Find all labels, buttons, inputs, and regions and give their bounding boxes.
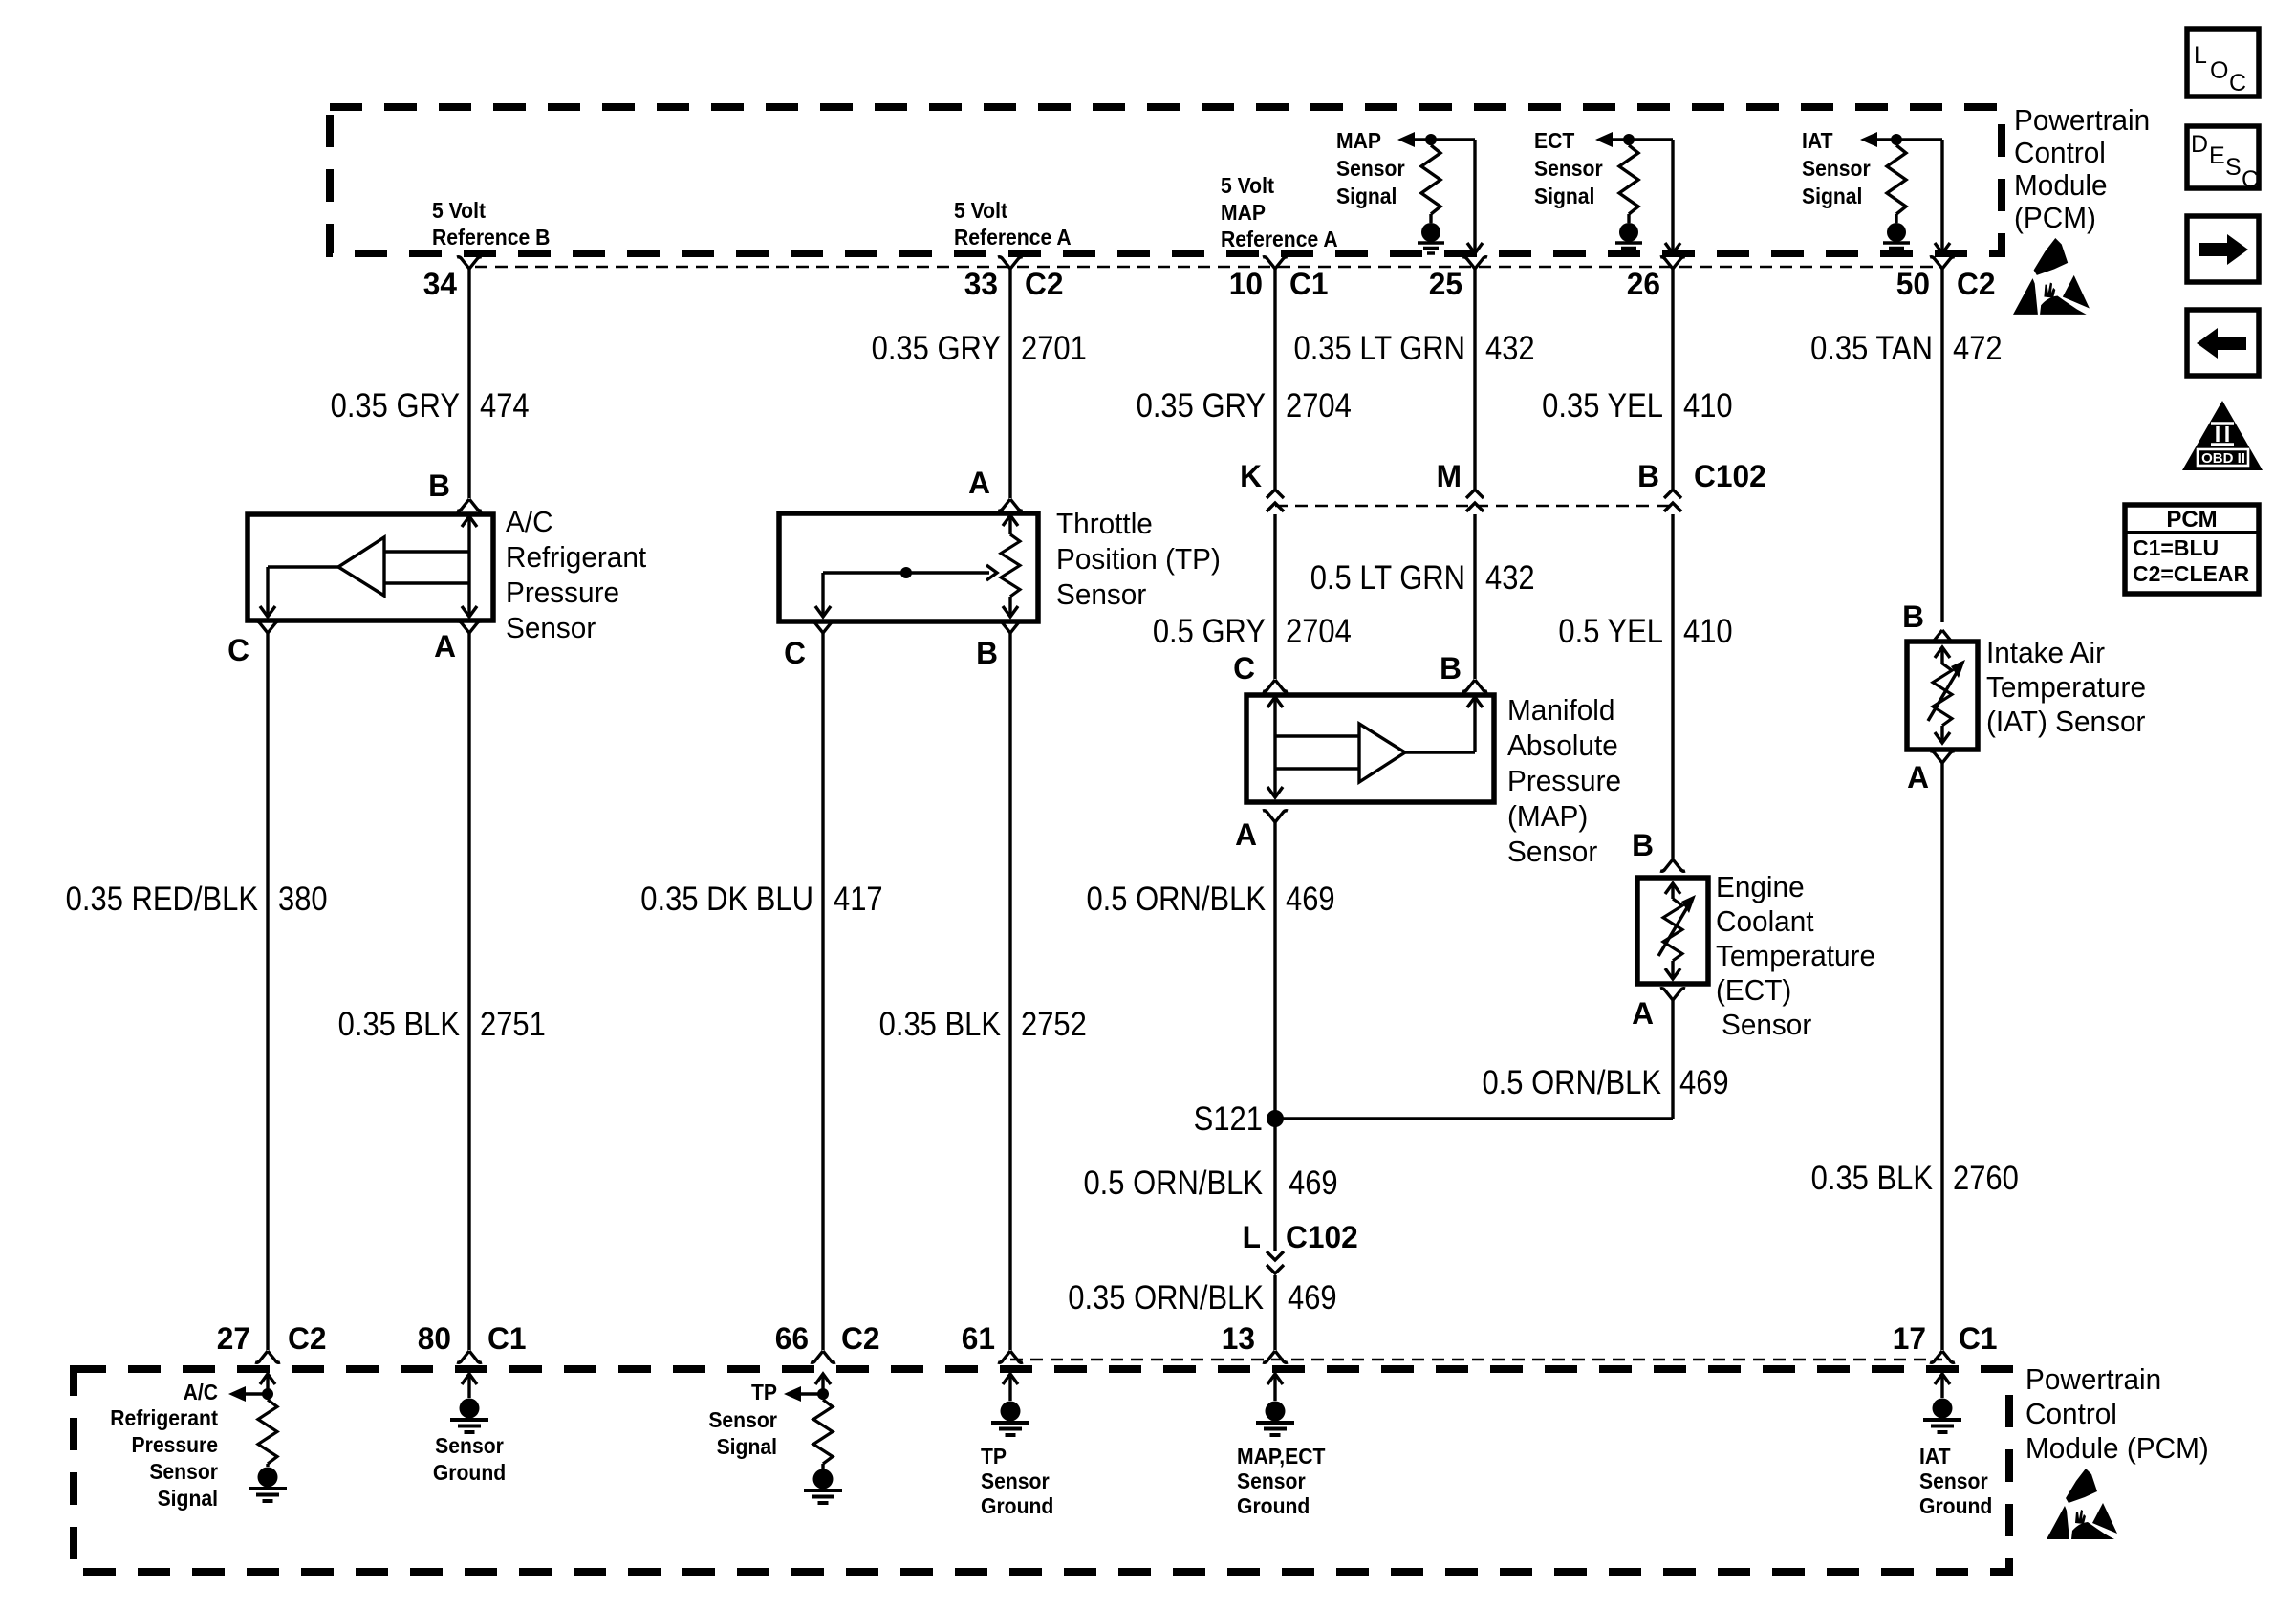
label Sensor Ground (pin 80) — [435, 1433, 504, 1458]
arrowhead up inside ECT top — [1665, 883, 1680, 894]
svg-text:C2: C2 — [1957, 267, 1995, 301]
svg-text:B: B — [976, 636, 998, 670]
svg-text:Pressure: Pressure — [132, 1432, 218, 1457]
ground (PCM internal, pin 80) — [450, 1399, 488, 1433]
wire C102 L to pin 13 — [1273, 1275, 1276, 1350]
label A/C Refrigerant Pressure Sensor — [506, 505, 553, 538]
connector pin 61 — [998, 1351, 1023, 1362]
label 0.35 RED/BLK 380 — [66, 881, 258, 918]
wire 10 to C102 K — [1273, 269, 1276, 489]
right arrow icon box — [2187, 216, 2259, 282]
label 0.35 GRY 474 — [331, 387, 460, 424]
svg-text:33: 33 — [964, 267, 998, 301]
svg-text:Temperature: Temperature — [1716, 939, 1875, 972]
ground (PCM internal, pin 13) — [1256, 1402, 1294, 1436]
svg-text:0.35 YEL: 0.35 YEL — [1542, 387, 1663, 424]
svg-text:80: 80 — [418, 1321, 451, 1356]
wire S121 to C102 L — [1273, 1119, 1276, 1251]
svg-text:A: A — [1907, 760, 1929, 794]
connector pin 80 C1 — [457, 1351, 482, 1362]
svg-text:TP: TP — [751, 1380, 777, 1404]
LOC icon box — [2187, 29, 2259, 97]
wire TP wiper down to C — [821, 573, 824, 615]
top connector boundary thin dashed line — [475, 266, 1942, 269]
svg-text:(IAT) Sensor: (IAT) Sensor — [1986, 705, 2145, 738]
connector pin 66 C2 — [811, 1351, 835, 1362]
svg-text:D: D — [2191, 131, 2208, 158]
svg-text:34: 34 — [423, 267, 458, 301]
label 0.35 BLK 2760 — [1811, 1160, 1933, 1197]
label Manifold Absolute Pressure (MAP) Sensor — [1507, 693, 1614, 727]
svg-text:Module (PCM): Module (PCM) — [2025, 1431, 2209, 1465]
arrowhead down at pin 50 — [1935, 243, 1950, 253]
svg-text:0.5 ORN/BLK: 0.5 ORN/BLK — [1482, 1064, 1661, 1101]
label A/C Refrigerant Pressure Sensor Signal — [184, 1380, 218, 1404]
svg-text:13: 13 — [1222, 1321, 1255, 1356]
connector MAP pin B — [1462, 680, 1487, 691]
svg-text:Position (TP): Position (TP) — [1056, 542, 1221, 576]
svg-text:Sensor: Sensor — [981, 1469, 1050, 1493]
svg-text:A: A — [968, 466, 990, 500]
svg-text:C2: C2 — [841, 1321, 879, 1356]
svg-text:Signal: Signal — [158, 1486, 218, 1511]
svg-text:B: B — [1440, 651, 1462, 685]
svg-text:Sensor: Sensor — [1237, 1469, 1306, 1493]
svg-text:TP: TP — [981, 1444, 1007, 1469]
svg-text:Reference A: Reference A — [1221, 227, 1338, 251]
node junction pin 27 — [262, 1388, 273, 1400]
svg-text:A: A — [1235, 817, 1257, 852]
svg-text:0.35 LT GRN: 0.35 LT GRN — [1293, 330, 1465, 367]
ESD sensitivity symbol (bottom) — [2047, 1469, 2117, 1539]
svg-text:C: C — [784, 636, 806, 670]
arrowhead up exiting MAP B — [1467, 697, 1483, 707]
OBD II triangle icon — [2182, 401, 2263, 470]
svg-text:Signal: Signal — [1534, 184, 1594, 208]
svg-text:Sensor: Sensor — [1507, 835, 1597, 868]
svg-text:469: 469 — [1289, 1164, 1338, 1202]
wire MAP internal branch lower — [1275, 767, 1359, 770]
svg-text:469: 469 — [1679, 1064, 1729, 1101]
svg-text:Control: Control — [2025, 1397, 2117, 1430]
svg-text:Ground: Ground — [1919, 1493, 1992, 1518]
wire pin 61 stub — [1008, 1374, 1011, 1401]
svg-text:S: S — [2225, 154, 2242, 181]
svg-text:17: 17 — [1893, 1321, 1926, 1356]
svg-text:Control: Control — [2014, 136, 2106, 169]
svg-text:0.5 ORN/BLK: 0.5 ORN/BLK — [1083, 1164, 1263, 1202]
resistor internal PCM (IAT pull-up) — [1895, 140, 1897, 145]
svg-text:C102: C102 — [1694, 459, 1766, 493]
arrowhead down exiting MAP A — [1267, 787, 1283, 797]
variable arrow ECT — [1658, 895, 1696, 956]
label 0.5 GRY 2704 — [1153, 613, 1266, 650]
svg-text:2704: 2704 — [1286, 387, 1352, 424]
connector pin 50 C2 — [1930, 257, 1955, 269]
label 0.5 LT GRN 432 — [1310, 559, 1465, 597]
svg-text:Sensor: Sensor — [435, 1433, 504, 1458]
op-amp triangle A/C (points left) — [338, 537, 384, 596]
svg-text:Reference A: Reference A — [954, 225, 1072, 250]
svg-text:66: 66 — [775, 1321, 809, 1356]
wire pin 66 stub — [821, 1374, 824, 1394]
wire M to MAP B — [1473, 514, 1476, 679]
arrowhead up entering A/C B — [462, 516, 477, 527]
TP signal arrow (filled, pointing left) — [784, 1386, 801, 1402]
svg-text:Signal: Signal — [1802, 184, 1862, 208]
label ECT Sensor Signal — [1534, 128, 1575, 153]
arrowhead down at pin 25 — [1467, 243, 1483, 253]
svg-text:(MAP): (MAP) — [1507, 799, 1588, 833]
wire A/C internal branch upper — [384, 550, 469, 553]
svg-text:5 Volt: 5 Volt — [432, 198, 487, 223]
node junction IAT signal — [1891, 134, 1902, 145]
wire A/C A to pin 80 — [467, 633, 470, 1350]
ground (PCM internal, pin 61) — [991, 1402, 1029, 1436]
wire MAP internal vertical — [1273, 697, 1276, 797]
wire pin 80 stub — [467, 1374, 470, 1398]
left arrow icon box — [2187, 310, 2259, 376]
connector pin 25 — [1462, 257, 1487, 269]
svg-text:(PCM): (PCM) — [2014, 201, 2096, 234]
svg-text:Signal: Signal — [717, 1434, 777, 1459]
svg-text:432: 432 — [1485, 330, 1535, 367]
connector MAP pin C — [1263, 680, 1288, 691]
svg-text:A: A — [434, 629, 456, 664]
svg-text:0.35 BLK: 0.35 BLK — [1811, 1160, 1933, 1197]
svg-text:0.35 BLK: 0.35 BLK — [879, 1006, 1001, 1043]
svg-text:Sensor: Sensor — [1336, 156, 1405, 181]
svg-text:0.35 ORN/BLK: 0.35 ORN/BLK — [1068, 1279, 1264, 1316]
svg-text:OBD II: OBD II — [2201, 450, 2245, 467]
svg-text:L: L — [2194, 42, 2207, 69]
svg-text:MAP: MAP — [1336, 128, 1381, 153]
svg-text:Pressure: Pressure — [1507, 764, 1621, 797]
label 0.35 ORN/BLK 469 — [1068, 1279, 1264, 1316]
svg-text:C2=CLEAR: C2=CLEAR — [2133, 561, 2249, 586]
svg-text:Ground: Ground — [981, 1493, 1053, 1518]
svg-text:0.35 TAN: 0.35 TAN — [1810, 330, 1933, 367]
svg-text:0.35 RED/BLK: 0.35 RED/BLK — [66, 881, 258, 918]
op-amp triangle MAP (points right) — [1359, 724, 1405, 782]
ground (PCM internal, pin 66) — [804, 1469, 842, 1504]
label 5 Volt Reference A — [954, 198, 1008, 223]
wire A/C internal branch lower — [384, 581, 469, 584]
svg-text:Reference B: Reference B — [432, 225, 550, 250]
svg-text:Manifold: Manifold — [1507, 693, 1614, 727]
arrowhead up inside IAT top — [1935, 647, 1950, 658]
svg-text:0.5 LT GRN: 0.5 LT GRN — [1310, 559, 1465, 597]
svg-text:Powertrain: Powertrain — [2025, 1362, 2161, 1396]
arrowhead up pin 80 stub — [462, 1374, 477, 1384]
ground (PCM internal, pin 17) — [1923, 1399, 1961, 1433]
svg-text:B: B — [1632, 828, 1654, 862]
svg-text:PCM: PCM — [2166, 507, 2217, 533]
label Powertrain Control Module PCM (bottom right) — [2025, 1362, 2161, 1396]
svg-text:MAP,ECT: MAP,ECT — [1237, 1444, 1326, 1469]
svg-text:Refrigerant: Refrigerant — [110, 1405, 218, 1430]
svg-text:Intake Air: Intake Air — [1986, 636, 2105, 669]
svg-text:C1=BLU: C1=BLU — [2133, 535, 2219, 560]
arrowhead up pin 27 stub — [260, 1374, 275, 1384]
label MAP Sensor Signal — [1336, 128, 1381, 153]
connector C102 pin L — [1243, 1220, 1261, 1254]
svg-text:472: 472 — [1953, 330, 2003, 367]
PCM module (top) dashed outline — [330, 107, 2002, 253]
svg-text:27: 27 — [217, 1321, 250, 1356]
arrowhead up entering TP A — [1003, 515, 1018, 526]
svg-text:Ground: Ground — [433, 1460, 506, 1485]
svg-text:MAP: MAP — [1221, 200, 1266, 225]
svg-text:61: 61 — [962, 1321, 995, 1356]
arrowhead down inside ECT bottom — [1665, 968, 1680, 979]
connector pin 34 — [457, 257, 482, 269]
resistor internal PCM (MAP pull-up) — [1429, 140, 1432, 145]
C102 thin dashed line — [1275, 505, 1673, 508]
label TP Sensor Signal — [751, 1380, 777, 1404]
thermistor IAT — [1940, 647, 1943, 664]
svg-text:469: 469 — [1286, 881, 1335, 918]
arrowhead up entering MAP C — [1267, 697, 1283, 707]
svg-text:0.35 BLK: 0.35 BLK — [338, 1006, 460, 1043]
svg-text:0.5 ORN/BLK: 0.5 ORN/BLK — [1086, 881, 1266, 918]
wire ECT signal horizontal — [1601, 138, 1673, 141]
svg-text:Throttle: Throttle — [1056, 507, 1153, 540]
svg-text:L: L — [1243, 1220, 1261, 1254]
wire A/C internal vertical — [467, 516, 470, 617]
label 5 Volt Reference B — [432, 198, 487, 223]
resistor internal PCM (ECT pull-up) — [1627, 140, 1630, 145]
label 0.35 BLK 2751 — [338, 1006, 460, 1043]
svg-text:2752: 2752 — [1021, 1006, 1087, 1043]
label Engine Coolant Temperature (ECT) Sensor — [1716, 870, 1805, 903]
svg-text:C: C — [2229, 70, 2246, 97]
ECT sensor signal arrow (filled, pointing left) — [1595, 132, 1613, 147]
svg-text:Sensor: Sensor — [1802, 156, 1871, 181]
svg-text:Coolant: Coolant — [1716, 904, 1814, 938]
wire pin 66 to TP signal arrow — [801, 1392, 823, 1395]
label 0.5 ORN/BLK 469 (ECT A) — [1482, 1064, 1661, 1101]
svg-text:Sensor: Sensor — [1534, 156, 1603, 181]
wire pin 13 stub — [1273, 1374, 1276, 1401]
svg-text:0.5 YEL: 0.5 YEL — [1558, 613, 1663, 650]
svg-text:C1: C1 — [1289, 267, 1328, 301]
svg-text:Sensor: Sensor — [1722, 1008, 1811, 1041]
arrowhead down exiting A/C C — [260, 606, 275, 617]
svg-text:2701: 2701 — [1021, 330, 1087, 367]
svg-text:5 Volt: 5 Volt — [1221, 173, 1275, 198]
svg-text:0.5 GRY: 0.5 GRY — [1153, 613, 1266, 650]
wire A/C C to pin 27 — [266, 633, 269, 1350]
svg-text:Sensor: Sensor — [506, 611, 596, 644]
svg-text:IAT: IAT — [1802, 128, 1833, 153]
label TP Sensor Ground — [981, 1444, 1007, 1469]
svg-text:C: C — [2242, 166, 2259, 193]
label 5 Volt MAP Reference A — [1221, 173, 1275, 198]
label 0.5 YEL 410 — [1558, 613, 1663, 650]
wire pin25 vertical inside PCM — [1473, 140, 1476, 251]
arrowhead up pin 61 stub — [1003, 1374, 1018, 1384]
svg-text:5 Volt: 5 Volt — [954, 198, 1008, 223]
svg-text:Signal: Signal — [1336, 184, 1397, 208]
label IAT Sensor Signal — [1802, 128, 1833, 153]
ground (PCM internal, ECT) — [1615, 223, 1642, 253]
node junction MAP signal — [1425, 134, 1437, 145]
svg-text:50: 50 — [1896, 267, 1930, 301]
svg-text:417: 417 — [834, 881, 883, 918]
svg-text:A/C: A/C — [184, 1380, 218, 1404]
svg-text:0.35 GRY: 0.35 GRY — [331, 387, 460, 424]
svg-text:B: B — [1637, 459, 1659, 493]
wire pin 27 to A/C signal arrow — [246, 1392, 268, 1395]
svg-text:Absolute: Absolute — [1507, 729, 1618, 762]
svg-text:25: 25 — [1429, 267, 1462, 301]
TP sensor box — [779, 513, 1038, 621]
svg-text:A: A — [1632, 996, 1654, 1031]
svg-text:C102: C102 — [1286, 1220, 1358, 1254]
label 0.5 ORN/BLK 469 (MAP A) — [1086, 881, 1266, 918]
connector pin 26 — [1660, 257, 1685, 269]
connector TP pin B — [998, 621, 1023, 633]
svg-text:Engine: Engine — [1716, 870, 1805, 903]
svg-text:Pressure: Pressure — [506, 576, 619, 609]
wire K to MAP C — [1273, 514, 1276, 679]
label 0.35 BLK 2752 — [879, 1006, 1001, 1043]
svg-text:26: 26 — [1627, 267, 1660, 301]
bottom connector thin dashed line — [1010, 1359, 1942, 1361]
svg-text:0.35 GRY: 0.35 GRY — [872, 330, 1001, 367]
svg-text:C2: C2 — [288, 1321, 326, 1356]
label IAT Sensor Ground — [1919, 1444, 1951, 1469]
wire ECT A down — [1671, 1000, 1674, 1119]
svg-text:Sensor: Sensor — [1056, 577, 1146, 611]
connector pin 27 C2 — [255, 1351, 280, 1362]
connector IAT pin B — [1930, 630, 1955, 642]
wire 33 to TP A — [1008, 269, 1011, 498]
svg-text:Refrigerant: Refrigerant — [506, 540, 647, 574]
label 0.35 YEL 410 — [1542, 387, 1663, 424]
node junction ECT signal — [1623, 134, 1635, 145]
label Intake Air Temperature (IAT) Sensor — [1986, 636, 2105, 669]
svg-text:E: E — [2209, 142, 2225, 169]
ECT sensor box — [1637, 878, 1708, 984]
svg-text:410: 410 — [1683, 387, 1733, 424]
ESD sensitivity symbol (top) — [2013, 238, 2090, 315]
arrowhead down exiting TP C — [815, 606, 831, 617]
arrowhead up pin 66 stub — [815, 1374, 831, 1384]
wire pin26 vertical inside PCM — [1671, 140, 1674, 251]
wire MAP A down to S121 — [1273, 822, 1276, 1119]
svg-text:469: 469 — [1288, 1279, 1337, 1316]
wire TP C to pin 66 — [821, 633, 824, 1350]
resistor internal PCM (pin 66) — [821, 1394, 824, 1400]
PCM connector legend box — [2125, 505, 2259, 594]
label 0.35 DK BLU 417 — [640, 881, 813, 918]
svg-text:0.35 GRY: 0.35 GRY — [1137, 387, 1266, 424]
wire 50 to IAT B — [1940, 269, 1943, 622]
svg-text:Sensor: Sensor — [1919, 1469, 1988, 1493]
A/C sensor box — [248, 514, 493, 620]
connector MAP pin A — [1263, 811, 1288, 822]
svg-text:0.35 DK BLU: 0.35 DK BLU — [640, 881, 813, 918]
svg-text:Module: Module — [2014, 168, 2108, 202]
splice S121 — [1267, 1110, 1284, 1127]
wire pin 17 stub — [1940, 1374, 1943, 1398]
resistor internal PCM (pin 27) — [266, 1394, 269, 1400]
wire pin50 vertical inside PCM — [1940, 140, 1943, 251]
connector TP pin A — [998, 499, 1023, 511]
label Powertrain Control Module PCM (top right) — [2014, 103, 2150, 137]
DESC icon box — [2187, 126, 2259, 188]
A/C signal arrow (filled, pointing left) — [228, 1386, 246, 1402]
connector A/C pin C — [255, 621, 280, 633]
wire B to ECT B — [1671, 514, 1674, 859]
wire A/C from op-amp tip — [268, 565, 338, 568]
TP wiper junction dot — [900, 567, 912, 578]
svg-text:474: 474 — [480, 387, 530, 424]
connector C102 pin B — [1664, 490, 1681, 511]
label MAP,ECT Sensor Ground — [1237, 1444, 1326, 1469]
svg-text:O: O — [2210, 57, 2228, 84]
IAT sensor signal arrow (filled, pointing left) — [1860, 132, 1877, 147]
svg-text:2704: 2704 — [1286, 613, 1352, 650]
connector pin 10 C1 — [1263, 257, 1288, 269]
svg-text:10: 10 — [1229, 267, 1263, 301]
svg-text:(ECT): (ECT) — [1716, 973, 1791, 1007]
svg-text:ECT: ECT — [1534, 128, 1575, 153]
svg-text:Sensor: Sensor — [708, 1407, 777, 1432]
svg-text:Powertrain: Powertrain — [2014, 103, 2150, 137]
wire 34 to A/C B — [467, 269, 470, 498]
connector A/C pin A — [457, 621, 482, 633]
connector C102 pin M — [1466, 490, 1484, 511]
label 0.35 TAN 472 — [1810, 330, 1933, 367]
svg-text:Temperature: Temperature — [1986, 670, 2146, 704]
wire MAP op-amp out — [1405, 751, 1475, 753]
ground (PCM internal, pin 27) — [249, 1468, 287, 1502]
label 0.35 LT GRN 432 — [1293, 330, 1465, 367]
svg-text:K: K — [1240, 459, 1262, 493]
connector ECT pin A — [1660, 989, 1685, 1000]
svg-text:B: B — [1902, 599, 1924, 634]
IAT sensor box — [1907, 642, 1978, 750]
connector C102 pin K — [1267, 490, 1284, 511]
svg-text:410: 410 — [1683, 613, 1733, 650]
arrowhead down exiting A/C A — [462, 606, 477, 617]
wire IAT A to pin 17 — [1940, 763, 1943, 1350]
svg-text:C2: C2 — [1025, 267, 1063, 301]
arrowhead down at pin 26 — [1665, 243, 1680, 253]
svg-text:432: 432 — [1485, 559, 1535, 597]
wire TP B to pin 61 — [1008, 633, 1011, 1350]
MAP sensor signal arrow (filled, pointing left) — [1397, 132, 1415, 147]
variable arrow IAT — [1928, 660, 1965, 721]
connector pin 13 — [1263, 1351, 1288, 1362]
connector A/C pin B — [457, 499, 482, 511]
arrowhead right TP wiper — [986, 565, 997, 580]
MAP sensor box — [1246, 695, 1494, 802]
ground (PCM internal, IAT) — [1883, 223, 1910, 253]
connector pin 17 C1 — [1930, 1351, 1955, 1362]
svg-text:IAT: IAT — [1919, 1444, 1951, 1469]
label 0.5 ORN/BLK 469 (below S121) — [1083, 1164, 1263, 1202]
wire TP wiper horizontal — [823, 571, 989, 574]
label 0.35 GRY 2701 — [872, 330, 1001, 367]
arrowhead up pin 13 stub — [1267, 1374, 1283, 1384]
wire ECT to S121 horizontal — [1275, 1117, 1673, 1120]
wire IAT signal horizontal — [1866, 138, 1942, 141]
ground (PCM internal, MAP) — [1418, 223, 1444, 253]
